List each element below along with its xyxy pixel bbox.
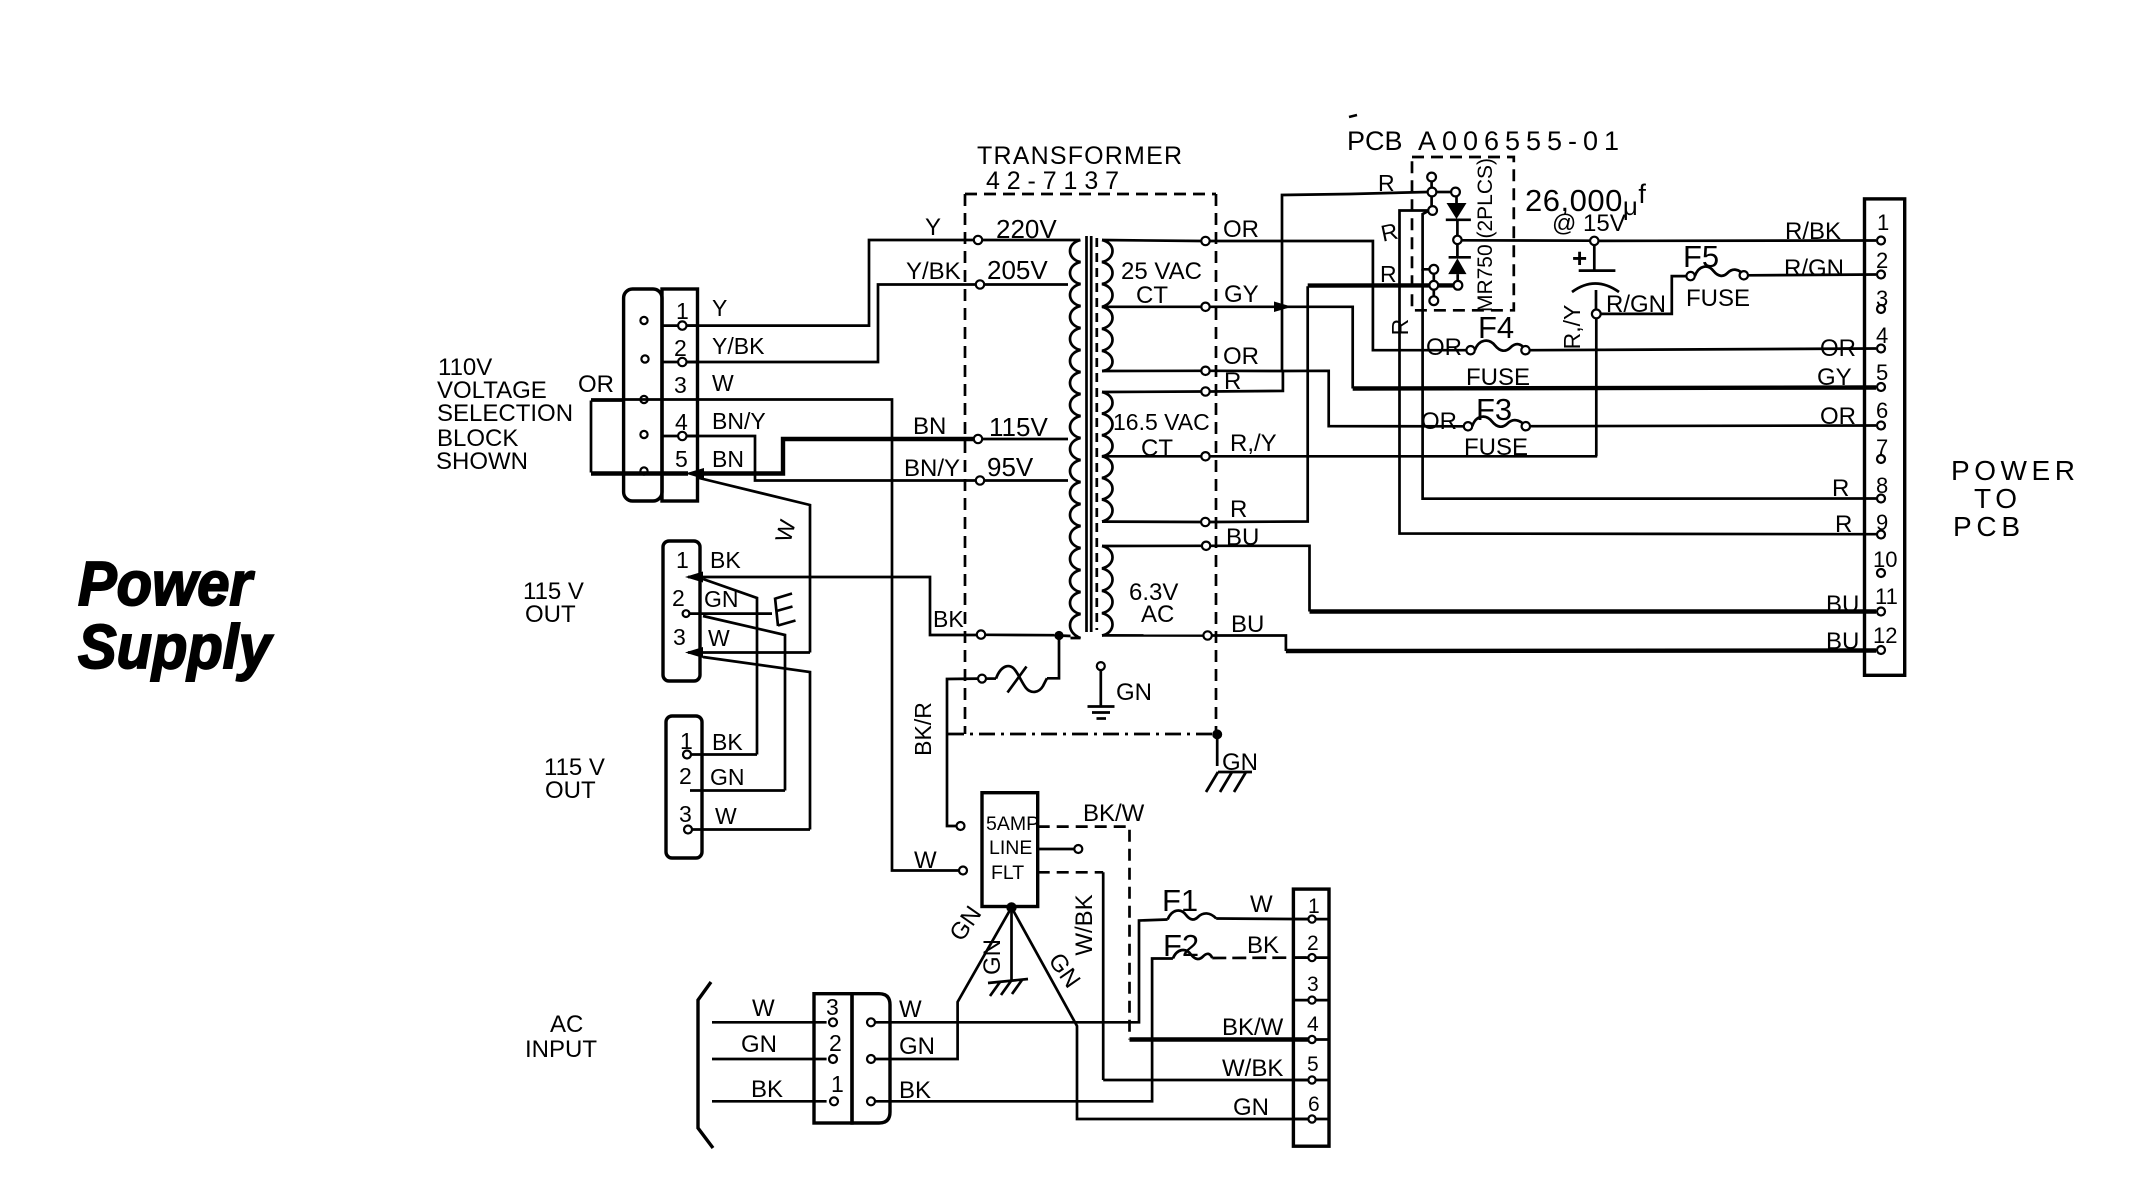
wire OR F3 to pin6 [1530, 424, 1876, 427]
wire junction down to breaker [1047, 636, 1059, 679]
svg-text:R: R [1230, 496, 1247, 523]
svg-text:BK: BK [751, 1076, 783, 1103]
wire R/GN jog to F5 [1601, 276, 1687, 314]
svg-text:5: 5 [1307, 1053, 1319, 1076]
svg-text:OR: OR [578, 371, 614, 398]
node cap junction circle [1590, 237, 1598, 245]
wire junction to coil end [1059, 634, 1071, 637]
GN stub under 6.3V winding [1088, 662, 1153, 718]
svg-text:TRANSFORMER: TRANSFORMER [977, 142, 1182, 170]
earth symbol E [775, 594, 796, 627]
svg-text:25 VAC: 25 VAC [1121, 258, 1202, 285]
primary tap 95V [976, 476, 984, 484]
svg-text:FUSE: FUSE [1686, 285, 1750, 312]
secondary tap BU top [1202, 542, 1210, 550]
wire 25VAC CT lead [1102, 305, 1201, 308]
connector J6 power to PCB [1865, 199, 1905, 675]
svg-text:OR: OR [1820, 403, 1856, 430]
svg-text:11: 11 [1875, 584, 1898, 609]
wire BK AC left [712, 1100, 827, 1103]
wire output to pin1 R/BK [1599, 239, 1877, 242]
svg-text:OR: OR [1223, 216, 1259, 243]
wire GN right diagonal to pin6 [1012, 907, 1309, 1119]
svg-text:BK: BK [933, 606, 964, 632]
svg-text:BK: BK [1247, 932, 1279, 959]
labels at 12 pin connector [1784, 218, 1856, 538]
wire 220V lead [982, 239, 1080, 242]
wire 16.5VAC bottom lead [1102, 520, 1201, 523]
fuse F3 [1421, 392, 1530, 461]
wire BK lead to junction [985, 633, 1054, 636]
wire W pin3 J3 [692, 828, 810, 831]
jumper bracket 110V [591, 401, 624, 473]
primary tap 205V [976, 280, 984, 288]
svg-text:R: R [1835, 511, 1852, 538]
svg-text:W: W [1250, 891, 1273, 918]
wire R heavy to diode CR2 [1308, 283, 1454, 288]
pin numbers J4 [826, 994, 844, 1097]
pin numbers J1 [674, 298, 689, 472]
wire Y/BK pin2 to 205V [687, 285, 976, 363]
wire BK AC to F2 [875, 959, 1173, 1102]
svg-text:R,/Y: R,/Y [1559, 305, 1585, 350]
pin numbers J6 [1873, 210, 1898, 648]
outer block contacts [640, 317, 648, 475]
wire W pin3 horizontal [688, 651, 810, 654]
wire BK diagonal to lower connector [703, 579, 757, 755]
svg-text:R: R [1378, 170, 1395, 196]
svg-text:BN: BN [712, 446, 744, 472]
node W circle at FLT [959, 867, 967, 875]
svg-text:3: 3 [674, 372, 687, 398]
wire GY heavy to pin5 [1353, 388, 1876, 389]
svg-text:BK/W: BK/W [1222, 1014, 1284, 1041]
svg-text:Y: Y [712, 295, 727, 321]
node R/GN junction circle [1592, 310, 1601, 319]
wire 25VAC top lead [1102, 240, 1201, 241]
PCB dashed box [1412, 157, 1514, 310]
svg-text:1: 1 [1308, 895, 1320, 918]
svg-text:CT: CT [1141, 435, 1173, 462]
svg-text:OR: OR [1820, 335, 1856, 362]
svg-text:CT: CT [1136, 282, 1168, 309]
secondary tap R/Y [1201, 452, 1209, 460]
pin labels J2 [704, 547, 741, 651]
diode CR2 [1448, 244, 1471, 290]
wire Y pin1 to 220V [687, 240, 974, 326]
labels AC wires left [741, 995, 783, 1103]
connector J1 voltage selection block inner [662, 289, 698, 501]
label 115V OUT second [544, 754, 605, 804]
node FLT bottom junction [1006, 902, 1016, 912]
title Power Supply [78, 550, 274, 682]
svg-text:BN/Y: BN/Y [904, 455, 960, 482]
svg-text:AC: AC [1141, 601, 1174, 628]
line filter box 5AMP LINE FLT [982, 793, 1038, 907]
wire W row3 to line filter [591, 400, 959, 871]
svg-text:GN: GN [1116, 679, 1152, 706]
wire W diagonal to lower connector [703, 657, 810, 830]
transformer secondary winding 16.5VAC [1102, 392, 1113, 522]
wire 6.3V bottom lead [1102, 634, 1203, 637]
svg-text:6: 6 [1308, 1093, 1320, 1116]
wire W/BK output dashed [1038, 871, 1104, 874]
svg-text:BU: BU [1826, 591, 1859, 618]
svg-text:16.5 VAC: 16.5 VAC [1113, 409, 1210, 435]
svg-text:GN: GN [899, 1033, 935, 1060]
ground chassis below transformer box [1206, 734, 1258, 792]
wire OR top tap to F4 [1210, 241, 1467, 350]
secondary tap OR bottom [1201, 367, 1209, 375]
svg-text:LINE: LINE [989, 837, 1032, 859]
diode CR1 terminal bar [1427, 173, 1437, 215]
wire W F1 to pin1 [1216, 917, 1308, 920]
svg-text:OUT: OUT [545, 777, 596, 804]
wire R/GN to pin2 [1748, 273, 1876, 276]
pin numbers J5 [1307, 895, 1320, 1116]
transformer T1 label [977, 142, 1182, 195]
secondary tap R bottom [1201, 518, 1209, 526]
pin labels J3 [710, 729, 745, 829]
fuse F4 [1426, 310, 1530, 391]
svg-text:OR: OR [1421, 408, 1457, 435]
svg-text:BU: BU [1826, 628, 1859, 655]
wire BK/W output dashed [1038, 827, 1130, 1040]
wire W/BK to pin5 [1103, 1079, 1308, 1082]
wire R/Y center tap [1210, 455, 1598, 458]
svg-text:INPUT: INPUT [525, 1036, 597, 1063]
node BK/R circle at FLT [957, 822, 965, 830]
svg-text:115V: 115V [989, 412, 1048, 442]
wire BN/Y pin4 to 95V [687, 436, 976, 481]
svg-text:GN: GN [710, 764, 745, 790]
svg-text:BK: BK [710, 547, 741, 573]
svg-text:W: W [708, 625, 730, 651]
svg-text:FUSE: FUSE [1466, 364, 1530, 391]
svg-text:MR750 (2PLCS): MR750 (2PLCS) [1474, 158, 1497, 312]
svg-text:2: 2 [829, 1030, 842, 1056]
wire rectified output to pin1 [1462, 239, 1591, 242]
pin contacts J5 [1308, 916, 1315, 1123]
pin dividers J5 [1293, 919, 1329, 1119]
svg-text:R: R [1387, 319, 1413, 336]
svg-text:SHOWN: SHOWN [436, 448, 528, 475]
svg-text:W: W [914, 847, 937, 874]
svg-text:Y: Y [925, 214, 941, 241]
wire R tap to OR bottom line [1210, 371, 1283, 392]
secondary tap R top [1201, 387, 1209, 395]
svg-text:Y/BK: Y/BK [906, 258, 961, 285]
svg-text:Power: Power [78, 550, 255, 619]
diode CR2 terminal bar [1429, 265, 1438, 305]
winding value labels [1113, 258, 1210, 628]
node junction dot primary bottom [1054, 631, 1063, 640]
svg-text:GN: GN [741, 1031, 777, 1058]
svg-text:4: 4 [1307, 1013, 1319, 1036]
connector J4 AC input right column [852, 994, 890, 1123]
svg-text:2: 2 [672, 585, 685, 611]
svg-text:1: 1 [676, 547, 689, 573]
connector J1 voltage selection block outer [624, 289, 662, 501]
svg-text:R/GN: R/GN [1606, 291, 1666, 318]
arrowhead BK pin1 [685, 572, 703, 583]
svg-text:OUT: OUT [525, 601, 576, 628]
svg-text:1: 1 [831, 1071, 844, 1097]
svg-text:A006555-01: A006555-01 [1418, 126, 1619, 156]
svg-text:@ 15V: @ 15V [1552, 210, 1626, 237]
svg-text:6: 6 [1876, 398, 1888, 423]
wire GN middle to ground [1010, 907, 1013, 981]
wire BN 115V tap to pin5 [694, 439, 974, 474]
svg-text:POWER: POWER [1951, 455, 2075, 486]
node GN junction on box bottom [1212, 729, 1222, 739]
wire 16.5VAC CT lead [1102, 455, 1201, 458]
svg-text:AC: AC [550, 1011, 583, 1038]
connector J4 AC input left column [814, 994, 852, 1123]
connector J3 115V OUT lower [666, 716, 702, 858]
transformer primary winding [1070, 240, 1081, 638]
svg-text:R,/Y: R,/Y [1230, 430, 1277, 457]
svg-text:OR: OR [1223, 343, 1259, 370]
bracket AC input [698, 982, 713, 1148]
pin contacts J3 [683, 751, 691, 759]
svg-text:5: 5 [675, 446, 688, 472]
svg-text:BN: BN [913, 413, 946, 440]
wire 95V lead [984, 479, 1068, 482]
primary tap 220V [974, 236, 982, 244]
svg-text:Supply: Supply [78, 613, 274, 682]
labels AC wires right [899, 996, 935, 1104]
wire diode junction link [1423, 211, 1430, 269]
secondary tap OR top [1201, 237, 1209, 245]
svg-text:F3: F3 [1476, 392, 1512, 427]
wire BK pin1 to transformer BK tap [688, 577, 977, 635]
wire OR F4 to pin4 [1530, 349, 1876, 351]
svg-text:PCB: PCB [1953, 511, 2020, 542]
svg-text:1: 1 [676, 298, 689, 324]
wire R bottom tap to diode CR2 [1209, 286, 1308, 522]
wire W diagonal from block to 115V OUT [697, 478, 810, 653]
svg-text:3: 3 [1307, 973, 1319, 996]
wire 25VAC bottom lead [1102, 369, 1201, 372]
svg-text:95V: 95V [987, 452, 1034, 482]
diode CR1 [1436, 188, 1471, 236]
svg-text:BK: BK [712, 729, 743, 755]
label AC INPUT [525, 1011, 597, 1063]
wire R from OR bottom tap to diode CR1 [1210, 192, 1428, 371]
wire R to pin8 [1423, 269, 1877, 498]
svg-text:R/BK: R/BK [1785, 218, 1841, 245]
svg-text:Y/BK: Y/BK [712, 333, 765, 359]
svg-text:2: 2 [1876, 248, 1888, 273]
svg-text:3: 3 [826, 994, 839, 1020]
pin numbers J2 [672, 547, 689, 650]
svg-text:2: 2 [1307, 932, 1319, 955]
svg-text:3: 3 [679, 801, 692, 827]
svg-text:PCB: PCB [1347, 126, 1403, 156]
primary tap BK [977, 630, 985, 638]
fuse F2 [1163, 928, 1212, 963]
svg-text:1: 1 [1877, 210, 1889, 235]
wire W AC left [712, 1021, 827, 1024]
svg-text:BK: BK [899, 1077, 931, 1104]
svg-text:205V: 205V [987, 255, 1048, 285]
wire W AC to F1 [875, 920, 1168, 1023]
wire GY tap to pin5 [1210, 307, 1353, 389]
wire BU to pin11 [1210, 546, 1309, 612]
secondary tap BU bottom [1203, 631, 1211, 639]
transformer dashed box [948, 194, 1216, 734]
wire BK pin1 J3 [691, 753, 757, 756]
wire GN pin2 to E [689, 612, 772, 615]
svg-text:R: R [1832, 475, 1849, 502]
wire BK F2 to pin2 [1212, 956, 1308, 959]
svg-text:R/GN: R/GN [1784, 255, 1844, 282]
primary tap labels [987, 214, 1057, 482]
wire 205V lead [984, 283, 1068, 286]
svg-text:GY: GY [1224, 281, 1259, 308]
node rectified output circle [1453, 236, 1461, 244]
wire stub output middle [1038, 848, 1074, 851]
capacitor C1 [1572, 243, 1619, 310]
arrow marker on GY line [1274, 302, 1292, 313]
ground chassis below FLT [988, 979, 1028, 996]
transformer secondary winding 25VAC [1102, 240, 1113, 371]
transformer secondary winding 6.3V [1102, 546, 1113, 636]
svg-text:SELECTION: SELECTION [437, 400, 573, 427]
wire cap to R/Y center tap [1595, 318, 1598, 456]
wire row5 jumper heavy [591, 471, 688, 475]
svg-text:BU: BU [1231, 611, 1264, 638]
fuse F5 [1683, 239, 1750, 312]
arrowhead W pin3 [685, 647, 703, 658]
svg-text:W: W [899, 996, 922, 1023]
wire GN diagonal to lower connector [703, 616, 785, 791]
svg-text:BK/W: BK/W [1083, 800, 1145, 827]
svg-text:OR: OR [1426, 334, 1462, 361]
svg-text:F1: F1 [1162, 883, 1198, 918]
wire 16.5VAC top lead [1102, 390, 1201, 393]
pin numbers J3 [679, 728, 693, 827]
svg-text:W/BK: W/BK [1071, 894, 1098, 955]
svg-text:BK/R: BK/R [910, 702, 936, 756]
secondary tap GY [1201, 303, 1209, 311]
breaker thermal cutout X [978, 666, 1047, 692]
pin wire labels J1 [712, 295, 766, 472]
wire R to pin9 [1400, 211, 1878, 535]
inner pin contacts [678, 321, 686, 440]
wire GN AC left [712, 1058, 827, 1061]
wire BK/W to pin4 [1130, 1037, 1309, 1041]
fuse F1 [1162, 883, 1216, 920]
label PCB A006555-01 [1347, 115, 1619, 156]
label 115V OUT first [523, 578, 584, 628]
wire GN AC to FLT dot [875, 907, 1012, 1059]
label 26000uf [1525, 179, 1646, 237]
wire 115V lead [982, 438, 1068, 441]
svg-text:W: W [712, 370, 734, 396]
svg-text:FUSE: FUSE [1464, 434, 1528, 461]
label POWER TO PCB [1951, 455, 2075, 542]
pin contacts J4 left [829, 1018, 837, 1026]
svg-text:W/BK: W/BK [1222, 1055, 1283, 1082]
secondary tap labels [1223, 216, 1277, 638]
svg-text:3: 3 [673, 624, 686, 650]
svg-text:BN/Y: BN/Y [712, 408, 766, 434]
svg-text:GN: GN [1233, 1094, 1269, 1121]
svg-text:GY: GY [1817, 364, 1852, 391]
svg-text:W: W [715, 803, 737, 829]
svg-text:FLT: FLT [991, 862, 1024, 884]
wire 6.3V top lead [1102, 544, 1202, 547]
wire OR bottom to F3 [1282, 371, 1464, 427]
svg-text:TO: TO [1974, 483, 2017, 514]
svg-text:5AMP: 5AMP [986, 813, 1039, 835]
wire GN pin2 J3 [690, 789, 785, 792]
pin dividers J1 [662, 326, 698, 436]
pin contacts J4 right [867, 1018, 875, 1026]
svg-text:+: + [1572, 243, 1587, 273]
label 110V VOLTAGE SELECTION BLOCK SHOWN [436, 354, 573, 475]
wire BU to pin12 [1212, 636, 1286, 652]
transformer core [1087, 236, 1097, 632]
wire BK/R from breaker [947, 679, 978, 826]
svg-text:10: 10 [1873, 547, 1897, 572]
svg-text:5: 5 [1876, 360, 1888, 385]
connector J2 115V OUT upper [663, 541, 700, 681]
svg-text:2: 2 [679, 763, 692, 789]
arrowhead BN into pin5 [685, 468, 704, 479]
svg-text:W: W [752, 995, 775, 1022]
primary tap 115V [974, 435, 982, 443]
pin contacts J6 [1877, 237, 1885, 655]
svg-text:GN: GN [979, 939, 1006, 975]
svg-text:R: R [1380, 261, 1397, 287]
svg-text:12: 12 [1873, 623, 1897, 648]
connector J5 six pin [1293, 889, 1329, 1146]
